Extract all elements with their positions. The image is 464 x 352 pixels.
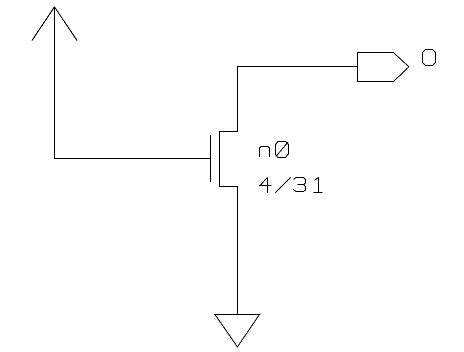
transistor n0 gate bar: [210, 135, 212, 182]
label n0 : slashed zero: [276, 142, 289, 158]
transistor n0 channel bar: [219, 131, 221, 187]
label n0 : n: [260, 147, 270, 157]
label 4/31 : 4: [259, 178, 272, 194]
label 4/31 : slash: [275, 178, 290, 193]
wire source to ground: [237, 186, 239, 315]
wire drain to output: [237, 66, 358, 132]
transistor n0 source stub: [219, 186, 238, 188]
label 4/31 : 1: [313, 177, 322, 193]
output pin symbol: [358, 53, 409, 82]
wire gate: [54, 158, 211, 160]
power symbol VDD arrow: [32, 7, 77, 160]
label 4/31 : 3: [294, 177, 306, 191]
ground: [215, 315, 260, 347]
transistor n0 drain stub: [219, 131, 238, 133]
label O: [423, 50, 436, 66]
